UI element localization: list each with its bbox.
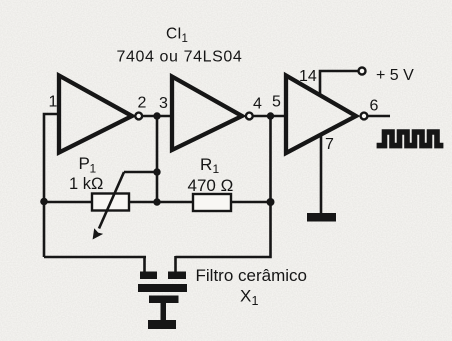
svg-text:6: 6 [370,98,379,115]
junction node 2-3 [153,112,160,119]
inverter U1-c triangle [286,76,356,154]
wire: R1 to right rail [231,201,271,204]
junction wiper / mid rail [153,168,160,175]
junction mid rail / pot row [153,198,160,205]
ground (pin 7) [307,213,336,222]
wire: pin7 down to ground [320,134,323,214]
wire: node2-3 between gate1 and gate2 [142,115,173,118]
svg-text:7404 ou 74LS04: 7404 ou 74LS04 [117,49,243,66]
svg-text:470 Ω: 470 Ω [188,176,234,195]
svg-text:1: 1 [182,33,188,45]
svg-text:X: X [240,287,251,306]
inverter U1-a triangle [59,76,132,153]
wire: gate1 input from left rail [44,114,59,257]
svg-text:5: 5 [272,94,281,111]
svg-text:+ 5 V: + 5 V [376,67,414,84]
wire: bottom-left rail to filter [44,256,146,259]
wire: gate3 output pin6 [367,115,390,118]
potentiometer P1 wiper arrow [99,172,124,229]
ceramic filter X1 bottom bar [148,320,176,329]
junction node 4-5 [267,112,274,119]
svg-text:3: 3 [159,95,168,112]
square wave output symbol [377,132,444,146]
ceramic filter X1 lower electrode [149,296,179,304]
+5V terminal circle [359,68,366,75]
wire: pot row left [44,201,92,204]
svg-text:2: 2 [138,95,147,112]
inverter U1-b output bubble pin4 [246,113,253,120]
svg-text:7: 7 [325,136,334,153]
svg-text:Filtro cerâmico: Filtro cerâmico [196,266,307,285]
ceramic filter X1 pad right [168,272,186,280]
ceramic filter X1 lead right [174,256,177,272]
wire: right rail from node 4-5 down to bottom [176,116,271,257]
inverter U1-b triangle [172,77,242,151]
svg-text:1: 1 [252,294,259,308]
svg-text:1: 1 [90,162,97,176]
svg-text:CI: CI [166,26,182,43]
inverter U1-c output bubble pin6 [361,113,368,120]
wire: pin14 to +5V terminal [320,71,358,95]
potentiometer P1 body [92,194,129,211]
wire: mid rail from node 2-3 down to pot row [156,116,159,202]
resistor R1 body [193,194,231,211]
svg-text:14: 14 [299,68,317,85]
ceramic filter X1 lead left [143,256,146,272]
svg-text:R: R [200,155,212,174]
svg-text:1 kΩ: 1 kΩ [69,175,103,193]
junction R1 / right rail [267,198,275,206]
ceramic filter X1 stem [161,303,167,321]
junction left rail / pot [40,198,48,206]
svg-text:4: 4 [253,96,262,113]
wire: pot wiper link [124,171,157,174]
svg-text:1: 1 [49,94,58,111]
wire: node4-5 between gate2 and gate3 [252,115,286,118]
svg-text:1: 1 [213,162,220,176]
ceramic filter X1 pad left [140,272,157,280]
svg-text:P: P [79,154,90,173]
wire: pot to R1 [129,201,193,204]
ceramic filter X1 plate [138,284,187,292]
inverter U1-a output bubble pin2 [135,113,142,120]
